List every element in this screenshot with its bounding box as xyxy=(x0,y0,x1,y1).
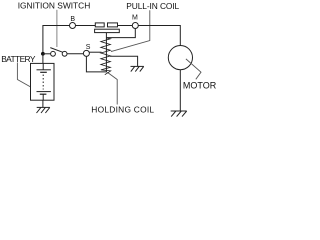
wire pull-in coil to M terminal xyxy=(106,29,135,38)
leader line from holding coil xyxy=(107,72,117,104)
wire contact to M xyxy=(118,25,133,27)
ignition switch contact right xyxy=(62,51,67,56)
wire battery to B terminal (top horizontal) xyxy=(43,26,70,54)
svg-text:M: M xyxy=(132,15,138,22)
terminal M xyxy=(132,23,138,29)
leader line from battery label xyxy=(17,63,30,88)
wire dot to battery xyxy=(42,54,44,64)
moving contact plate xyxy=(95,29,120,32)
battery plate short bottom xyxy=(40,93,47,95)
leader line to ignition switch xyxy=(56,10,58,47)
svg-text:B: B xyxy=(70,16,75,23)
svg-text:BATTERY: BATTERY xyxy=(1,54,36,64)
battery plate long top xyxy=(37,69,51,71)
ground (motor) xyxy=(171,111,187,117)
wire dot to switch xyxy=(43,53,51,55)
battery plate short top xyxy=(40,71,47,73)
battery cell top wire xyxy=(42,63,44,69)
terminal S xyxy=(83,50,89,56)
ground (battery) xyxy=(37,107,50,113)
fixed contact right xyxy=(108,23,118,27)
leader line to motor xyxy=(186,59,201,79)
svg-text:MOTOR: MOTOR xyxy=(183,80,217,90)
svg-text:PULL-IN COIL: PULL-IN COIL xyxy=(126,1,179,11)
pull-in / holding coil winding xyxy=(101,38,111,75)
plunger shaft xyxy=(105,33,107,72)
terminal B xyxy=(70,23,76,29)
ground (holding coil) xyxy=(131,66,144,71)
wire S to coil xyxy=(89,51,102,53)
junction dot battery/switch xyxy=(41,52,45,56)
wire S to holding coil bottom xyxy=(86,56,107,72)
fixed contact left xyxy=(95,23,104,27)
leader line to pull-in coil xyxy=(111,10,150,51)
battery cell bottom wire xyxy=(42,94,44,100)
wire battery to ground xyxy=(42,100,44,107)
wire M to motor xyxy=(138,26,180,46)
svg-text:IGNITION SWITCH: IGNITION SWITCH xyxy=(18,1,91,11)
wire motor to ground xyxy=(179,70,181,111)
battery plate long bottom xyxy=(37,91,51,93)
svg-text:S: S xyxy=(86,44,91,51)
svg-text:HOLDING COIL: HOLDING COIL xyxy=(91,104,154,114)
battery box xyxy=(31,63,55,100)
wire switch to S xyxy=(67,53,83,55)
ignition switch contact left xyxy=(51,51,56,56)
battery dotted link xyxy=(42,75,44,90)
wire B to contact xyxy=(76,25,96,27)
wire coil to ground xyxy=(110,56,138,66)
motor xyxy=(168,46,192,70)
ignition switch blade xyxy=(50,48,63,53)
